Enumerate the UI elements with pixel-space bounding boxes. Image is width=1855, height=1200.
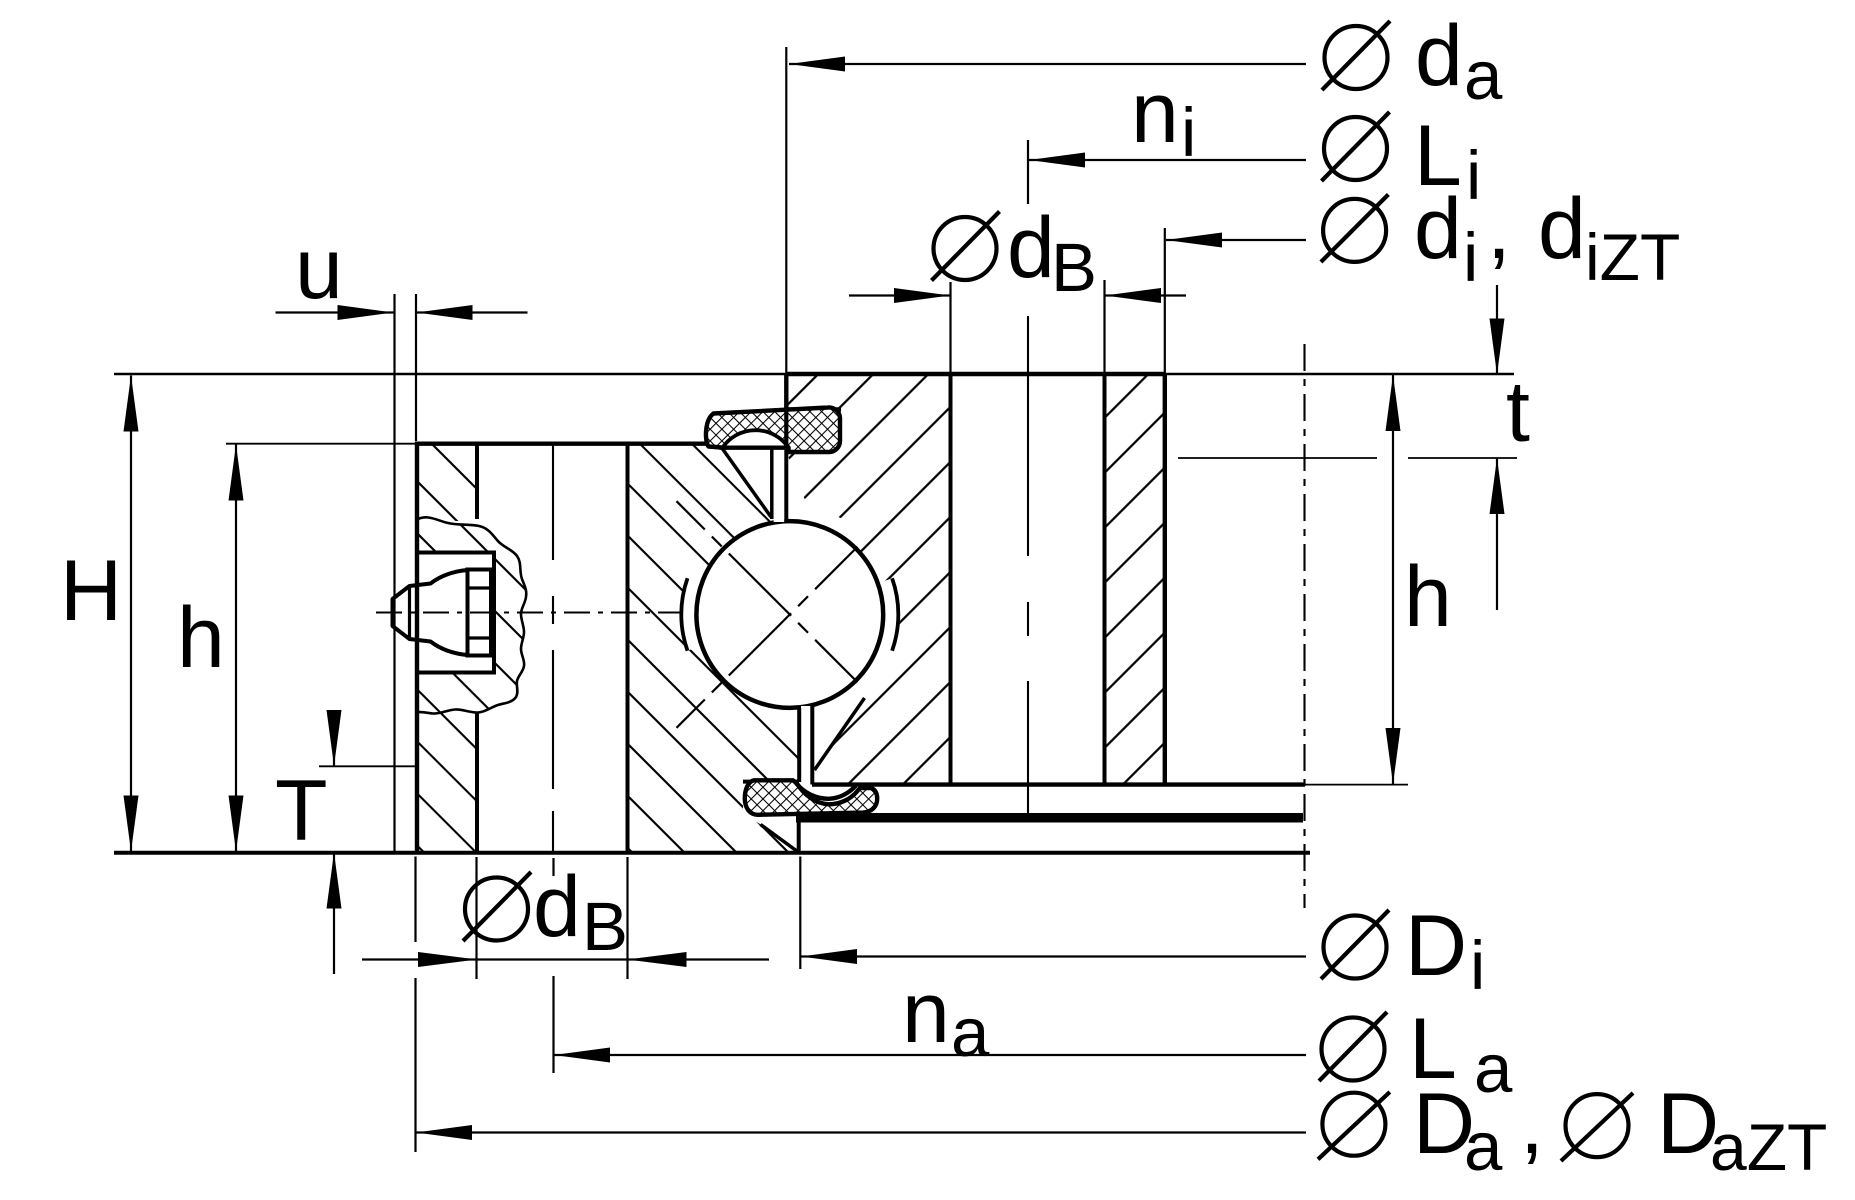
gap strip above ball — [772, 446, 787, 522]
support strip below inner ring — [796, 813, 1303, 823]
svg-text:d: d — [1007, 200, 1055, 296]
svg-text:d: d — [1414, 181, 1462, 277]
outer ring bolt hole centre line — [552, 444, 554, 851]
outer ring outline — [415, 442, 722, 852]
d_a dimension — [786, 8, 1503, 373]
u dimension — [276, 221, 528, 320]
svg-text:d: d — [1538, 181, 1586, 277]
grease nipple break-out blob with hatching — [417, 517, 526, 713]
T dimension — [275, 710, 342, 974]
outer ring top chamfer to raceway — [721, 446, 772, 517]
outer ring left band hatching — [417, 444, 477, 851]
structure edge dash-dot line right — [1303, 344, 1305, 908]
nipple recess box white + outline — [417, 552, 494, 673]
outer ring right section hatching — [628, 444, 799, 852]
d_B bottom dimension — [362, 857, 769, 1153]
inner ring left section hatching — [787, 374, 951, 785]
svg-text:t: t — [1506, 364, 1530, 460]
svg-text:B: B — [1051, 229, 1097, 306]
L_a / n_a dimension — [554, 965, 1513, 1107]
grease nipple — [393, 570, 492, 656]
svg-text:i: i — [1181, 94, 1196, 171]
h dimension right — [1386, 375, 1452, 784]
svg-text:n: n — [1131, 65, 1179, 161]
T reference line — [319, 765, 415, 767]
svg-text:iZT: iZT — [1585, 220, 1680, 294]
inner ring right band hatching — [1105, 374, 1165, 785]
svg-text:,: , — [1520, 1076, 1544, 1172]
gap strip below ball — [799, 706, 812, 785]
svg-text:h: h — [1404, 549, 1452, 645]
svg-text:d: d — [1415, 8, 1463, 104]
svg-text:u: u — [295, 221, 343, 317]
L_i / n_i dimension — [1028, 65, 1481, 214]
h dimension left — [177, 445, 244, 852]
inner ring bottom extension line — [1305, 784, 1408, 786]
right step reference line — [1178, 457, 1517, 459]
nipple axis centre line — [376, 611, 700, 613]
svg-text:a: a — [951, 994, 990, 1071]
svg-text:n: n — [902, 965, 950, 1061]
top surface line — [114, 373, 1514, 376]
svg-text:D: D — [1405, 898, 1467, 994]
ball cross centre lines — [677, 501, 904, 728]
inner ring bolt hole centre line — [1027, 316, 1029, 814]
t dimension — [1490, 285, 1531, 610]
raceway pocket white crescents — [681, 578, 898, 650]
top seal — [706, 407, 840, 452]
outer ring bolt hole edges — [477, 444, 628, 852]
svg-text:H: H — [60, 543, 122, 639]
svg-text:T: T — [275, 763, 328, 859]
svg-text:a: a — [1474, 1030, 1513, 1107]
bottom seal groove of outer ring — [743, 782, 799, 852]
d_i dimension — [1165, 181, 1680, 373]
D_i dimension — [800, 857, 1485, 1005]
inner ring bottom chamfer to raceway — [815, 698, 865, 770]
svg-text:i: i — [1470, 927, 1485, 1004]
svg-text:d: d — [533, 859, 581, 955]
svg-text:a: a — [1464, 37, 1503, 114]
bottom surface line — [114, 851, 1310, 855]
svg-text:aZT: aZT — [1710, 1110, 1827, 1184]
svg-text:a: a — [1464, 1108, 1503, 1185]
bottom seal — [745, 780, 877, 815]
h left extension of ring top — [226, 443, 416, 445]
H dimension — [60, 376, 139, 852]
svg-text:h: h — [177, 590, 225, 686]
mounting face line left of outer ring — [393, 294, 395, 852]
u extension line over ring face — [415, 294, 417, 441]
d_B top dimension — [849, 200, 1186, 373]
svg-text:B: B — [582, 888, 628, 965]
inner ring outline — [786, 374, 1305, 785]
svg-text:i: i — [1463, 219, 1478, 296]
svg-text:i: i — [1466, 137, 1481, 214]
D_a / D_aZT dimension — [416, 1076, 1827, 1185]
ball — [695, 519, 885, 709]
svg-text:,: , — [1487, 181, 1511, 277]
